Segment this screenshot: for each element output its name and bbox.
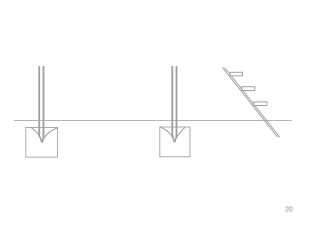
post P1 tip bbox=[39, 135, 43, 142]
step bracket 1 bbox=[230, 72, 242, 76]
diagonal rail line 1 bbox=[222, 67, 277, 137]
svg-text:20: 20 bbox=[285, 207, 293, 214]
page number 20 bbox=[285, 207, 293, 214]
step bracket 2 bbox=[242, 87, 255, 91]
step bracket 3 bbox=[254, 102, 267, 106]
post P2 bbox=[171, 66, 173, 137]
diagonal rail line 2 bbox=[225, 68, 280, 138]
post P1 bbox=[38, 66, 40, 137]
funnel curves box 1 bbox=[32, 128, 42, 143]
footing box 1 bbox=[26, 128, 58, 158]
post P2 tip bbox=[172, 135, 176, 142]
funnel curves box 2 bbox=[161, 127, 175, 142]
footing box 2 bbox=[160, 127, 190, 157]
ground line bbox=[14, 120, 292, 122]
